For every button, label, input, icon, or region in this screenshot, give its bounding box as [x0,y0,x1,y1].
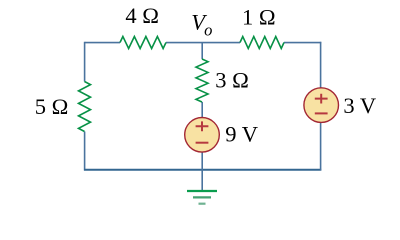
resistor R2 1-ohm [240,37,284,49]
ground line 1 [187,190,217,192]
V2 minus sign [315,112,328,114]
V1 plus sign [196,121,209,131]
svg-text:1 Ω: 1 Ω [242,4,276,29]
wire: middle vertical (9V source to bottom) [201,151,203,170]
wire: top-right segment [284,42,321,44]
voltage source V2 3V circle [304,88,339,123]
resistor R3 5-ohm [79,82,91,132]
wire: ground stem [201,170,203,191]
wire: top-left segment [85,42,121,44]
wire: middle vertical (3-ohm to 9V source) [201,102,203,118]
V1 minus sign [196,142,209,144]
wire: left vertical upper [84,42,86,82]
svg-text:5 Ω: 5 Ω [35,94,69,119]
wire: top-middle segment [166,42,240,44]
wire: right vertical upper [320,42,322,88]
wire: bottom [84,169,321,171]
ground line 3 [199,203,206,205]
wire: left vertical lower [84,132,86,171]
resistor R4 3-ohm [196,59,208,102]
svg-text:3 V: 3 V [343,93,376,118]
wire: right vertical lower [320,122,322,171]
resistor R1 4-ohm [120,37,166,49]
ground line 2 [193,196,211,198]
svg-text:9 V: 9 V [225,122,258,147]
voltage source V1 9V circle [185,118,220,153]
svg-text:4 Ω: 4 Ω [125,3,159,28]
wire: middle vertical upper (node Vo to 3-ohm) [201,43,203,59]
svg-text:Vo: Vo [191,10,212,40]
V2 plus sign [315,94,328,104]
svg-text:3 Ω: 3 Ω [215,67,249,92]
